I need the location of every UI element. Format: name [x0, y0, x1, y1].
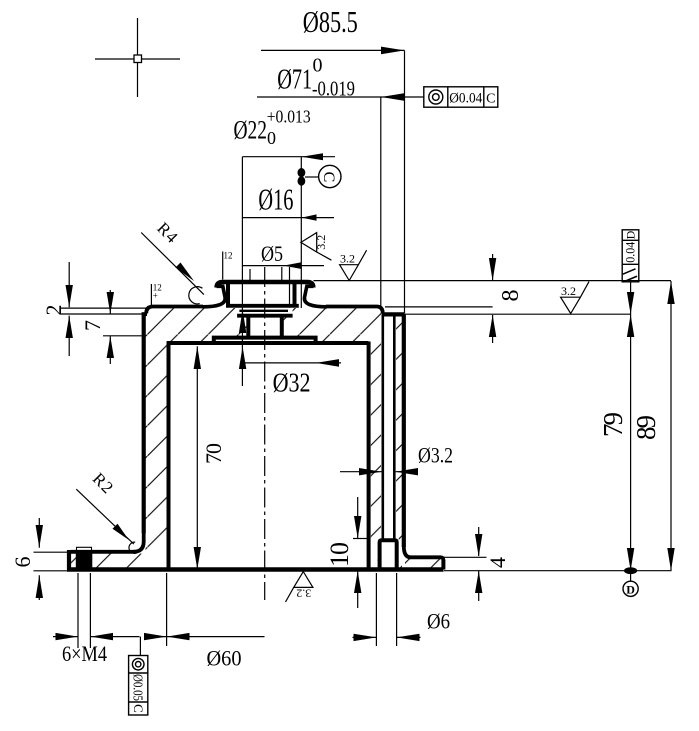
svg-text:3.2: 3.2 [314, 235, 328, 250]
svg-text:Ø22: Ø22 [234, 116, 268, 145]
svg-text:0: 0 [313, 55, 323, 77]
svg-text:Ø0.04: Ø0.04 [449, 91, 482, 107]
svg-text:3.2: 3.2 [561, 284, 576, 298]
svg-text:Ø3.2: Ø3.2 [418, 443, 453, 468]
svg-text:Ø0.05: Ø0.05 [129, 674, 144, 701]
svg-text:D: D [626, 582, 635, 596]
svg-text:C: C [486, 92, 495, 107]
svg-text:Ø71: Ø71 [277, 63, 312, 95]
svg-text:-0.019: -0.019 [312, 77, 355, 101]
svg-text:6: 6 [10, 557, 35, 568]
svg-text:6×M4: 6×M4 [62, 641, 107, 666]
svg-text:2: 2 [41, 305, 66, 316]
svg-text:+: + [153, 291, 158, 301]
svg-text:+0.013: +0.013 [267, 107, 311, 127]
svg-text:C: C [320, 172, 337, 183]
svg-text:Ø5: Ø5 [261, 241, 283, 266]
svg-text:12: 12 [224, 251, 233, 261]
svg-text:3.2: 3.2 [296, 587, 311, 601]
svg-text:0: 0 [267, 128, 276, 148]
svg-text:4: 4 [485, 557, 510, 568]
svg-text:Ø32: Ø32 [273, 368, 311, 398]
svg-text:89: 89 [631, 415, 661, 440]
svg-text:3.2: 3.2 [340, 252, 355, 266]
svg-text:0.04: 0.04 [623, 241, 638, 262]
svg-text:Ø16: Ø16 [258, 182, 293, 217]
svg-text:7: 7 [80, 320, 105, 331]
svg-text:79: 79 [598, 412, 628, 437]
svg-text:Ø85.5: Ø85.5 [303, 4, 358, 39]
svg-text:C: C [131, 704, 146, 713]
svg-text:70: 70 [201, 443, 226, 464]
svg-text:10: 10 [325, 542, 354, 567]
svg-text:Ø6: Ø6 [427, 609, 450, 634]
svg-text:Ø60: Ø60 [207, 646, 242, 671]
svg-text:D: D [624, 230, 638, 239]
svg-text:8: 8 [498, 290, 524, 302]
